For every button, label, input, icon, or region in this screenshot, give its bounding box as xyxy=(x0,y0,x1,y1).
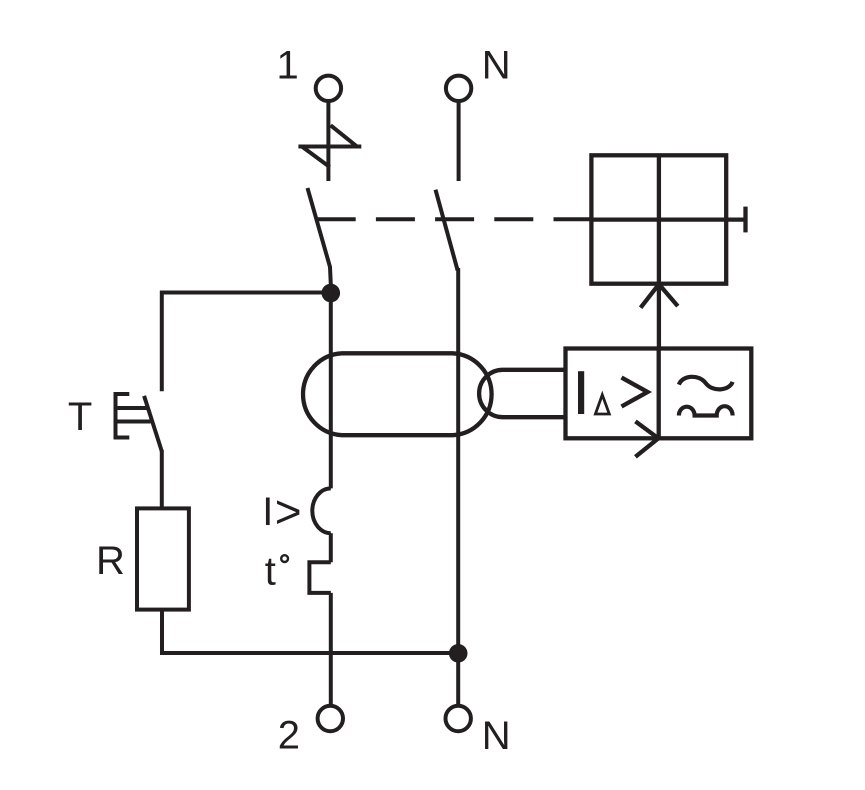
wire from terminal 1 xyxy=(326,103,330,182)
waveform symbols xyxy=(679,377,733,416)
switch pole 1 blade xyxy=(308,188,331,285)
resistor R xyxy=(96,508,189,609)
magnetic release I> xyxy=(262,485,331,537)
current transformer toroid xyxy=(303,353,492,435)
terminal 1 xyxy=(277,44,342,101)
test wire horizontal xyxy=(162,291,331,295)
test button T xyxy=(68,394,162,509)
svg-text:R: R xyxy=(96,539,125,583)
mechanical linkage dashed line xyxy=(317,217,592,221)
label I-delta xyxy=(578,371,648,414)
terminal N bottom xyxy=(446,706,511,758)
svg-text:2: 2 xyxy=(278,713,300,757)
thermal release t° xyxy=(265,550,331,594)
trip actuating arrow xyxy=(641,284,678,349)
terminal 2 xyxy=(278,706,343,758)
residual current trip unit box xyxy=(566,349,752,439)
test wire vertical xyxy=(160,291,164,392)
svg-text:t: t xyxy=(265,550,276,594)
svg-text:N: N xyxy=(482,44,511,88)
trip unit output arrowhead xyxy=(635,421,658,456)
overcurrent release flag symbol xyxy=(298,125,361,167)
svg-text:T: T xyxy=(68,395,92,439)
svg-text:N: N xyxy=(482,714,511,758)
coupling capsule to trip unit xyxy=(479,370,567,417)
pole 2 wire xyxy=(456,268,460,704)
svg-text:1: 1 xyxy=(277,44,299,88)
pole 1 lower wire xyxy=(329,593,333,704)
svg-text:>: > xyxy=(275,485,302,537)
svg-text:I: I xyxy=(262,490,273,534)
junction node B xyxy=(449,644,468,663)
wire from terminal N xyxy=(457,103,461,182)
test return wire xyxy=(162,610,458,653)
wire xyxy=(329,533,333,562)
junction node A xyxy=(322,284,341,303)
terminal N top xyxy=(446,44,511,102)
pole 1 wire through toroid xyxy=(329,284,333,488)
switch pole 2 blade xyxy=(436,190,458,271)
mechanism box xyxy=(591,155,745,283)
